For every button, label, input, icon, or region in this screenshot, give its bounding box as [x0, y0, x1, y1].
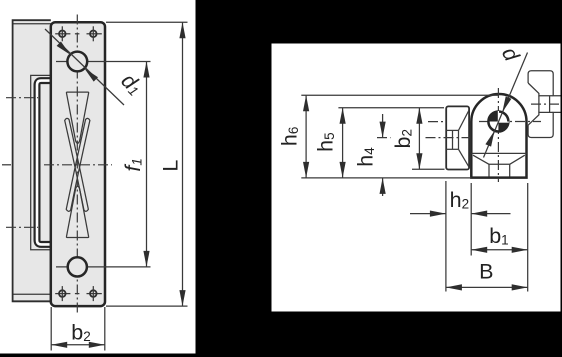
b2 dimension line [51, 344, 105, 346]
b2 arrow right [89, 342, 105, 348]
side housing block body [13, 20, 51, 302]
b1 dimension line [471, 249, 528, 251]
left panel white background [0, 0, 196, 354]
h5 arrow top [340, 108, 346, 124]
d arrowhead lower [485, 131, 494, 147]
centerline slit through upper-left quadrant [497, 111, 499, 122]
spring arm strip top-right to bottom-left [66, 118, 90, 211]
nut inner vertical [452, 130, 454, 149]
body groove right vertical [509, 164, 511, 176]
L arrow top [179, 22, 185, 38]
b2r dimension line [418, 108, 420, 170]
body groove top line [489, 163, 510, 165]
h4 arrow down (outside) [380, 122, 386, 138]
B dimension line [446, 286, 528, 288]
body chamfer diag right [510, 155, 525, 164]
nut block outline [446, 106, 469, 169]
cross hole quadrant lower-right [498, 122, 508, 132]
b1/B right extension line [527, 183, 529, 292]
hole vertical centerline [497, 88, 499, 182]
bottom large hole crosshair/extension line f1 [56, 266, 151, 268]
spring arm strip top-left to bottom-right [65, 118, 89, 211]
wing knob axis centerline [531, 103, 561, 105]
b2 right extension line [104, 307, 106, 351]
nut chamfer lower line [446, 148, 458, 150]
lower screw axis centerline [6, 226, 38, 228]
b2 bottom extension line [412, 168, 445, 170]
large hole bottom [68, 257, 87, 276]
top hole-row centerline [55, 33, 102, 35]
h2/b1 middle extension line [470, 183, 472, 256]
B arrow left [446, 284, 462, 290]
cross hole quadrant upper-left [488, 112, 498, 122]
d leader line [484, 53, 528, 158]
large hole top [67, 52, 87, 72]
small hole bottom-right [90, 286, 97, 301]
small hole top-left [59, 26, 66, 41]
centerline slit through lower-right quadrant [498, 121, 508, 123]
f1 arrow top [143, 62, 149, 78]
d1 arrowhead lower [84, 68, 98, 81]
mid height centerline left stub [2, 164, 11, 166]
L dimension line [182, 22, 184, 306]
h6 arrow bottom [303, 162, 309, 178]
spring channel white core [37, 81, 51, 245]
body groove left vertical [488, 164, 490, 176]
f1 dimension line [146, 62, 148, 267]
L top extension line [106, 21, 188, 23]
h2 arrow right (outside) [430, 211, 446, 217]
nut chamfer upper line [446, 129, 458, 131]
wing knob outline [528, 71, 560, 138]
vertical centerline of plate [76, 15, 78, 314]
spring channel outline (side view) [37, 81, 51, 245]
side housing bottom inner line [14, 293, 51, 295]
body lower step line [471, 152, 526, 154]
h5 top extension line [338, 107, 444, 109]
waist centerline [44, 164, 112, 166]
right panel white background [272, 44, 561, 312]
nut chamfer diag upper [459, 110, 470, 130]
d arrowhead upper [502, 96, 511, 112]
L bottom extension line [106, 305, 188, 307]
h6 dimension line [305, 95, 307, 178]
h5 dimension line [342, 108, 344, 178]
spring bottom funnel slot [66, 186, 88, 237]
cross hole circle [488, 112, 508, 132]
b2r arrow top [416, 108, 422, 124]
h2 arrow left (outside) [471, 211, 487, 217]
h2 left tail line [410, 213, 446, 215]
side housing outline [13, 20, 51, 301]
small hole top-right [90, 26, 97, 41]
side housing inner slot thin profile [31, 75, 51, 249]
h2/B left extension line [445, 181, 447, 292]
h4 arrow up (outside) [380, 178, 386, 194]
d1 leader line [45, 29, 124, 105]
svg-text:L: L [159, 160, 183, 172]
d1 arrowhead upper [57, 42, 71, 55]
L arrow bottom [179, 290, 185, 306]
h4 upper tail line [382, 114, 384, 138]
h2 right tail line [471, 213, 510, 215]
B arrow right [512, 284, 528, 290]
hole horizontal centerline [428, 121, 541, 123]
stud axis centerline [377, 137, 470, 139]
b2 left extension line [50, 307, 52, 351]
b1 arrow left [471, 247, 487, 253]
bottom hole-row centerline [55, 293, 102, 295]
h5 arrow bottom [340, 162, 346, 178]
h4 lower tail line [382, 178, 384, 196]
b2r arrow bottom [416, 153, 422, 169]
nut chamfer mid vertical [458, 130, 460, 149]
nut chamfer diag lower [459, 149, 470, 167]
clamp body outline [471, 94, 526, 178]
svg-text:B: B [479, 260, 493, 284]
b2 arrow left [51, 342, 67, 348]
h6 arrow top [303, 95, 309, 111]
body chamfer diag left [473, 155, 489, 164]
bottom reference extension line [301, 177, 471, 179]
upper screw axis centerline [6, 97, 38, 99]
f1 arrow bottom [143, 251, 149, 267]
side housing top inner line [14, 23, 51, 25]
spring top funnel slot [66, 92, 88, 143]
top large hole crosshair/extension line f1 [56, 61, 151, 63]
front plate body [51, 22, 105, 306]
h6 top extension line [301, 94, 499, 96]
b1 arrow right [512, 247, 528, 253]
small hole bottom-left [59, 286, 66, 301]
